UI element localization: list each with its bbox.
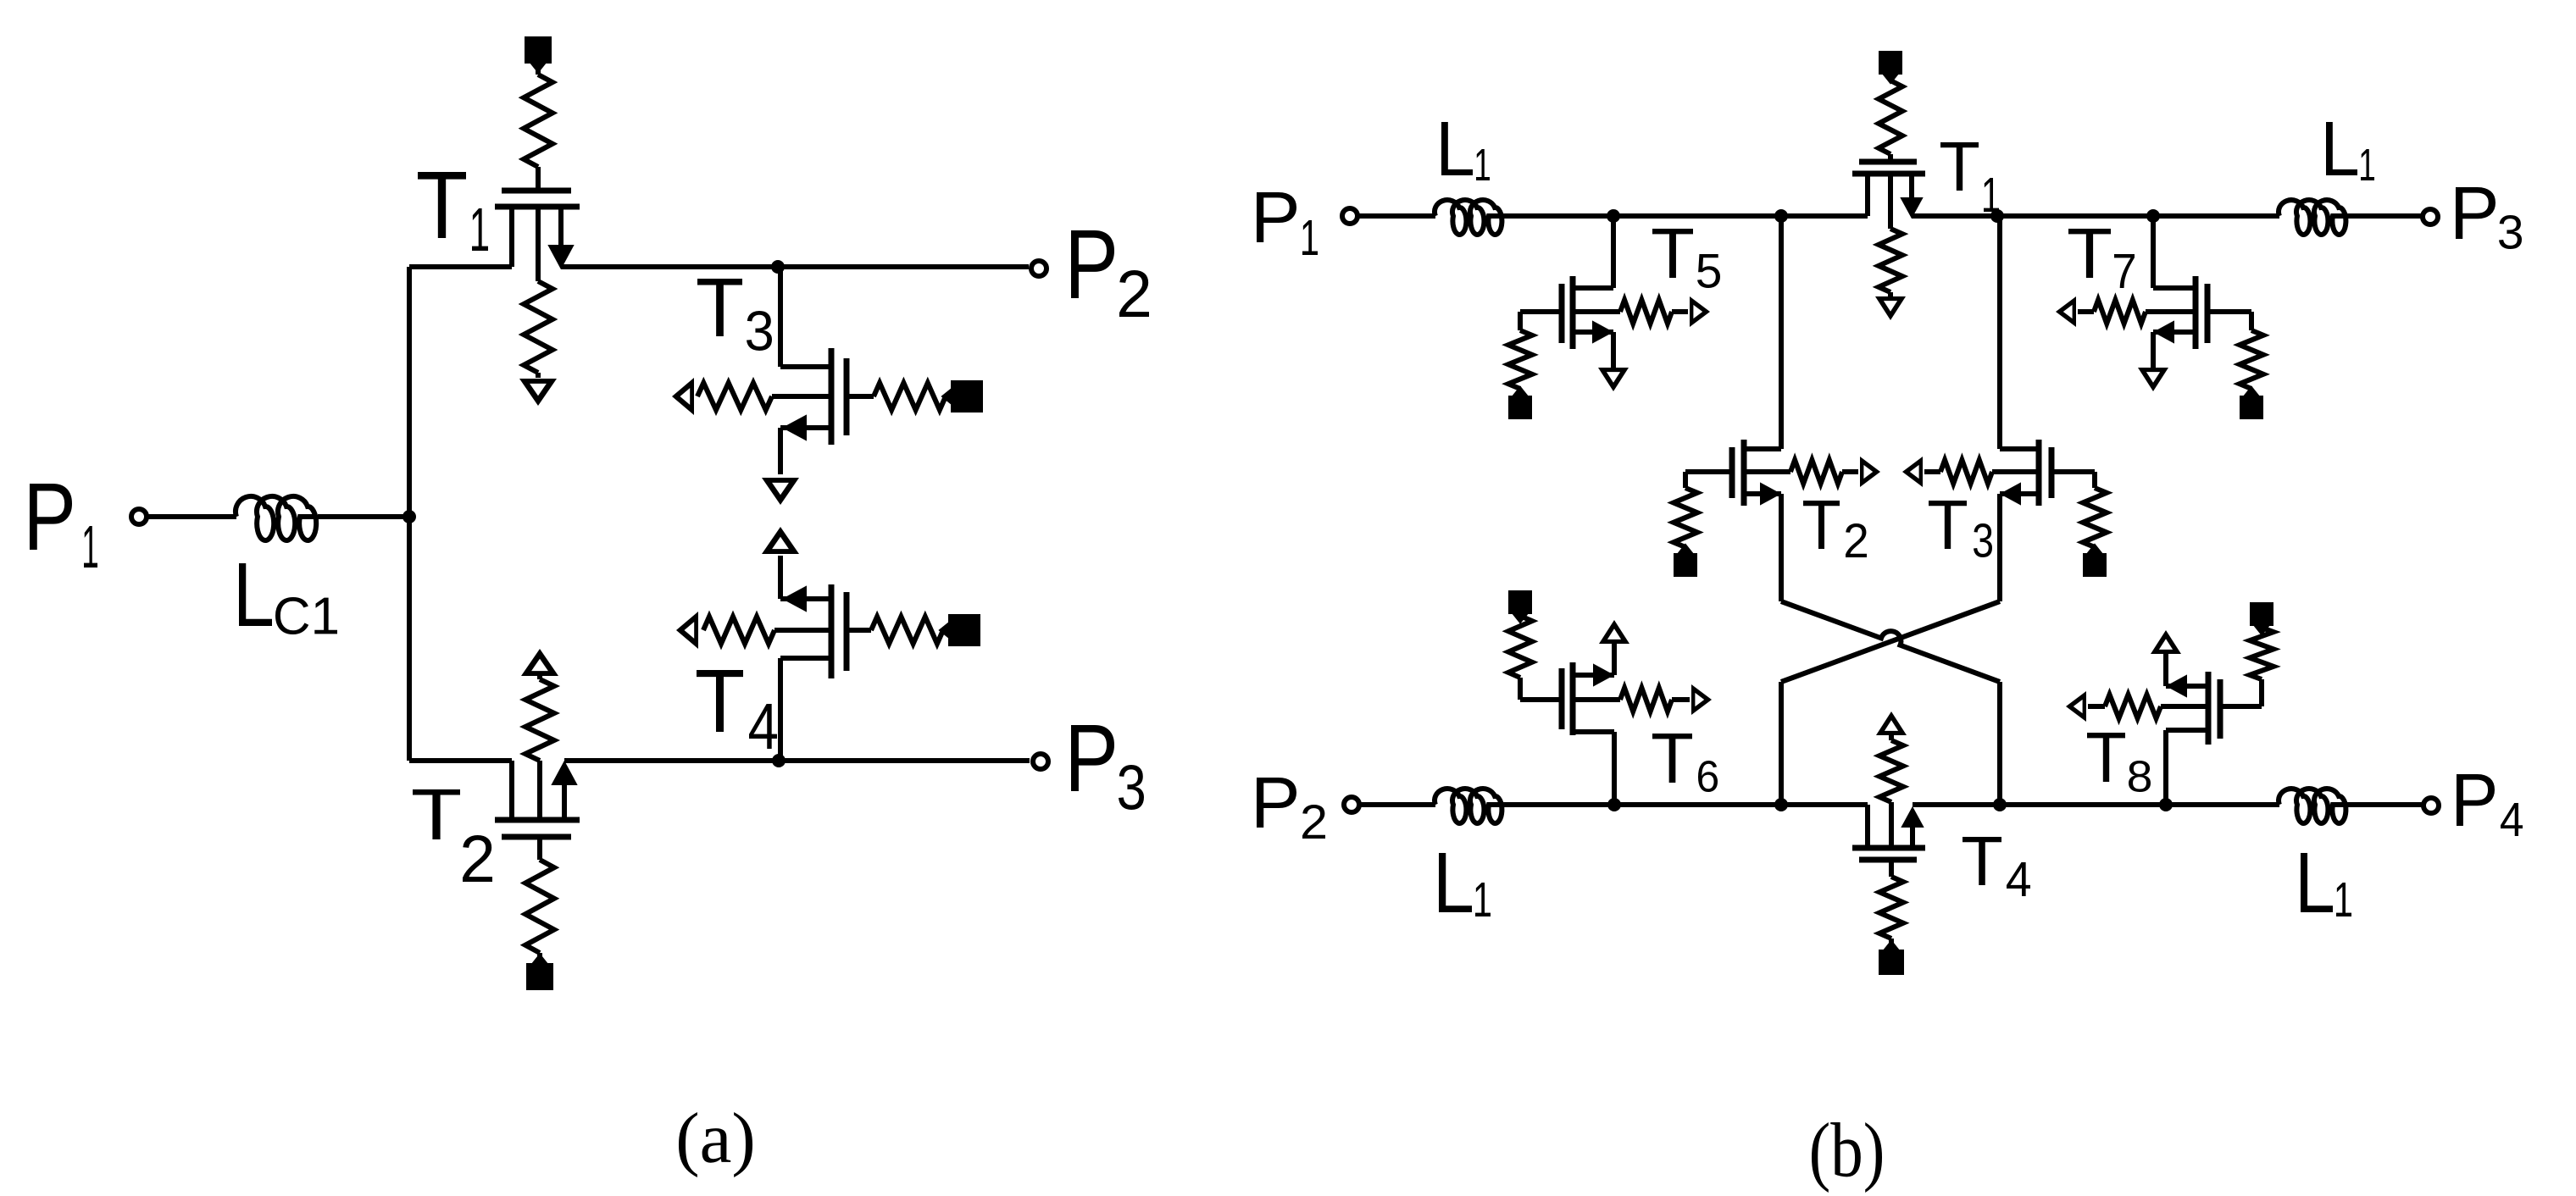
label L1 top-left [1441,122,1490,180]
wire [1779,682,1784,805]
inductor L_C1 [236,496,316,540]
bias square T6 [1508,590,1532,623]
wire crossover hop [1781,601,2000,682]
transistor T3 gate bar [844,358,850,435]
transistor T6 gate bar [1559,668,1565,729]
label T2 (b) [1803,501,1867,557]
wire [1683,547,1688,553]
wire [847,628,871,633]
T2b bulk terminal arrow [1842,457,1880,487]
wire [1888,154,1893,162]
T6 source terminal arrow [1599,620,1629,644]
wire [1912,213,2279,219]
transistor T2 bulk stub [537,761,542,820]
label T4 [697,670,777,749]
wire [537,837,542,860]
wire [1889,860,1894,877]
resistor T6 gate [1508,616,1532,678]
wire [1781,601,2000,682]
junction node (a) P3 line [772,754,786,767]
wire [778,428,783,474]
transistor T1 channel bar [495,204,580,210]
transistor T1 gate bar [502,188,571,194]
wire [1913,802,2279,807]
transistor T3b source stub [2000,484,2039,504]
wire [318,514,409,519]
label T1 (b) [1940,142,1999,212]
resistor T4 bulk [703,617,774,644]
wire [409,264,512,269]
transistor T1 drain stub [509,207,514,267]
resistor T7 gate [2240,330,2263,389]
label P1 (b) [1257,192,1318,255]
T1 bulk terminal arrow [519,373,557,406]
resistor T3b gate [2083,488,2107,547]
label L1 top-right [2326,122,2374,180]
transistor T6 drain stub [1574,732,1614,805]
transistor T3 drain stub [780,364,831,369]
T3b bulk terminal arrow [1902,457,1940,487]
label T2 [413,789,492,882]
junction node T7 [2146,209,2160,223]
T2 bulk terminal arrow [521,649,558,676]
transistor T3b gate bar [2049,447,2055,498]
bias square T4b [1879,941,1904,975]
wire [1359,802,1435,807]
label P3 (b) [2456,187,2522,249]
transistor T2b channel bar [1741,440,1747,506]
transistor T8 gate bar [2218,679,2223,739]
transistor T2b drain stub [1746,446,1781,451]
label T8 [2087,733,2151,792]
wire [1503,213,1868,219]
transistor T7 drain stub [2153,216,2194,288]
wire [2347,802,2424,807]
transistor T3 source stub [780,416,831,440]
wire [537,676,542,679]
bias square T8 [2250,602,2273,634]
junction node cross right [1993,798,2007,811]
wire [2051,472,2095,488]
wire [1997,494,2002,601]
resistor T3 bulk [697,383,772,410]
wire [1503,802,1868,807]
wire [1779,216,1784,449]
port P3 (a) [1033,754,1048,769]
label P2 (a) [1071,230,1149,317]
transistor T6 channel bar [1570,662,1576,735]
label P4 (b) [2457,774,2523,836]
transistor T7 channel bar [2193,276,2199,349]
transistor T3b channel bar [2036,440,2042,506]
wire [536,167,541,191]
junction node T5 [1607,209,1620,223]
resistor T5 bulk [1620,300,1672,324]
transistor T1b bulk stub [1888,174,1893,229]
transistor T2b gate bar [1729,447,1735,498]
transistor T8 drain stub [2166,730,2207,805]
wire [536,64,541,75]
wire [2151,332,2156,368]
T7 source terminal arrow [2138,368,2168,391]
transistor T5 gate bar [1559,284,1565,343]
transistor T1 source stub [549,207,573,268]
T4 bulk terminal arrow [676,612,698,649]
transistor T1b drain stub [1865,174,1870,216]
transistor T8 bulk stub [2161,704,2208,709]
wire [1520,678,1562,700]
wire [943,628,948,633]
resistor T2b bulk [1790,460,1842,484]
bias square T3b [2083,545,2107,577]
transistor T2 channel bar [495,817,580,823]
transistor T2 source stub [552,762,576,820]
T8 bulk terminal arrow [2066,691,2105,722]
transistor T5 bulk stub [1573,309,1620,314]
resistor T8 gate [2250,628,2273,679]
wire [147,514,236,519]
bias square T3 [942,380,983,413]
wire [778,556,783,599]
label L1 bottom-right [2301,853,2351,916]
wire [561,264,1029,269]
T8 source terminal arrow [2151,630,2181,654]
port P1 (b) [1342,208,1357,224]
inductor L1 top-left [1435,200,1502,235]
wire [1611,332,1616,368]
junction node T3 drain [1990,209,2004,223]
bias square T2 [526,955,553,990]
transistor T8 source stub [2166,676,2208,696]
transistor T4 source stub [780,587,831,611]
port P2 (a) [1031,261,1046,276]
T3 bulk terminal arrow [672,378,694,415]
transistor T7 source stub [2153,322,2196,342]
transistor T5 channel bar [1570,276,1576,349]
port P2 (b) [1344,797,1359,812]
resistor T1b bulk [1879,229,1902,292]
wire [2207,312,2251,330]
T1b bulk terminal arrow [1875,292,1906,320]
T5 bulk terminal arrow [1672,296,1710,327]
transistor T1 bulk stub [536,207,541,281]
T5 source terminal arrow [1598,368,1629,391]
port P4 (b) [2423,798,2439,813]
transistor T3b bulk stub [1992,469,2039,474]
transistor T4 channel bar [829,584,835,678]
bias square T5 [1508,387,1532,419]
wire [1685,472,1732,488]
wire [1888,75,1893,80]
wire [1889,735,1894,740]
T4b bulk terminal arrow [1876,712,1907,735]
wire [1997,216,2002,449]
transistor T3 bulk stub [772,394,831,399]
resistor T2 bulk [525,679,554,761]
port P1 (a) [131,509,147,524]
T7 bulk terminal arrow [2056,296,2094,327]
transistor T6 bulk stub [1573,697,1620,702]
label T6 [1652,734,1718,792]
resistor T6 bulk [1620,688,1672,712]
resistor T3b bulk [1940,460,1992,484]
transistor T4b source stub [1902,808,1923,848]
T3 source terminal arrow [762,478,799,505]
port P3 (b) [2423,209,2438,224]
junction node T2 drain [1774,209,1788,223]
bias square T4 [940,614,980,646]
resistor T5 gate [1508,330,1532,389]
inductor L1 bottom-left [1435,789,1502,823]
wire [946,394,951,399]
wire [1357,213,1435,219]
T6 bulk terminal arrow [1672,684,1712,715]
label (a) [679,1112,752,1177]
wire [1997,682,2002,805]
resistor T8 bulk [2105,695,2161,718]
label T3 (b) [1929,501,1992,557]
label T7 [2068,229,2135,288]
label T5 [1652,229,1720,288]
wire [1518,389,1523,396]
transistor T4 gate bar [844,592,850,671]
wire [1889,939,1894,950]
wire [409,758,512,763]
transistor T2b bulk stub [1744,469,1790,474]
node junction (a) [402,510,416,523]
label P1 (a) [30,484,97,568]
bias square T1b [1879,51,1902,83]
wire [847,394,874,399]
junction node cross left [1774,798,1788,811]
resistor T4b bulk [1879,740,1903,802]
transistor T4 drain stub [780,656,831,661]
label (b) [1812,1122,1882,1193]
wire [2092,547,2097,553]
transistor T4b gate bar [1859,857,1917,863]
resistor T4 gate [871,617,943,644]
wire [1779,494,1784,601]
transistor T6 source stub [1573,665,1614,685]
resistor T4b gate [1879,877,1903,939]
transistor T4b drain stub [1865,805,1870,848]
transistor T4 bulk stub [774,628,831,633]
resistor T7 bulk [2094,300,2146,324]
label L_C1 [239,563,337,634]
T4 source terminal arrow [762,527,799,554]
transistor T2b source stub [1744,484,1781,504]
transistor T1b gate bar [1859,159,1917,165]
transistor T3b drain stub [2000,446,2037,451]
inductor L1 top-right [2279,200,2346,235]
inductor L1 bottom-right [2279,789,2346,823]
label P3 (a) [1071,725,1144,810]
transistor T2 gate bar [502,834,571,840]
transistor T5 source stub [1573,322,1613,342]
wire [2347,213,2423,219]
transistor T2 drain stub [509,761,514,820]
label L1 bottom-left [1439,853,1491,916]
bias square T2b [1674,545,1697,577]
resistor T1 gate [524,75,552,167]
transistor T4b channel bar [1852,845,1925,851]
wire [2220,679,2262,706]
junction node T6 [1607,798,1621,811]
wire [1612,644,1617,675]
wire [564,758,1030,763]
junction node T8 [2159,798,2173,811]
resistor T3 gate [874,383,946,410]
resistor T2b gate [1674,488,1697,547]
bias square T7 [2240,387,2263,419]
transistor T5 drain stub [1574,216,1613,288]
wire [537,953,542,963]
wire [1520,312,1562,330]
resistor T1b gate [1879,80,1902,154]
transistor T4b bulk stub [1889,802,1894,848]
transistor T7 bulk stub [2146,309,2196,314]
label T1 [418,172,488,251]
wire [778,267,783,367]
transistor T1b source stub [1901,174,1922,217]
label P2 (b) [1257,778,1325,839]
wire [778,658,783,761]
wire [2249,389,2254,396]
transistor T7 gate bar [2205,284,2211,343]
bias square T1 [525,36,552,72]
transistor T8 channel bar [2206,672,2212,745]
transistor T1b channel bar [1852,171,1925,177]
wire [407,267,412,761]
label T4 (b) [1963,837,2030,896]
junction node (a) P2 line [771,260,785,274]
wire [2163,654,2168,686]
label T3 [697,279,772,351]
resistor T2 gate [525,860,554,953]
resistor T1 bulk [524,281,552,373]
transistor T3 channel bar [829,348,835,445]
